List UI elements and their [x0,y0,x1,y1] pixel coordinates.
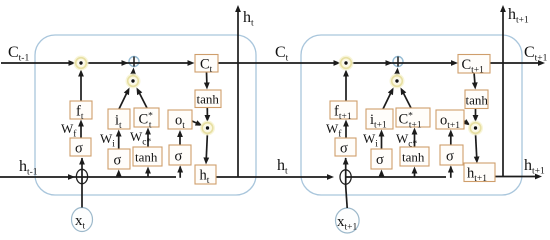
svg-text:σ: σ [446,149,454,165]
svg-text:Wf: Wf [61,121,77,140]
LSTM cell box t+1 [301,35,522,195]
wire h to sigma_i t [118,174,120,177]
plus glyph add t [133,57,135,67]
tanh box output t [195,90,221,108]
svg-text:ht+1: ht+1 [524,157,545,177]
wire C_t to output tanh [206,72,208,85]
svg-text:tanh: tanh [135,150,158,165]
svg-text:σ: σ [376,152,384,168]
multiply circle forget t+1 [339,56,354,71]
wire output multiply to h_t+1 gate [476,134,477,160]
sigma box input t+1 [371,149,392,169]
wire i gate to multiply junction t+1 [383,92,392,110]
output multiply circle t+1 [468,121,483,136]
svg-text:Wf: Wf [326,121,342,140]
wire sigma_f to f gate t [80,124,82,138]
output gate box o_t [168,110,192,129]
multiply junction circle t+1 [390,74,405,89]
cell state box C_t+1 [458,55,490,74]
tanh box candidate t [133,147,162,166]
wire output multiply to h_t gate [206,134,207,161]
wire h_t to cell t+1 [216,176,328,178]
hidden-state output arrow h_t+1 [495,176,538,178]
svg-text:Wi: Wi [363,131,378,150]
multiply circle forget t [74,56,89,71]
wire h to sigma_i t+1 [381,174,383,177]
hidden state box h_t+1 [464,163,495,182]
wire x_t through concat to sigma_f [81,158,83,208]
vertical output h_t [237,10,239,177]
wire f gate to multiply t+1 [345,74,347,101]
hidden-state line inside cell t+1 [346,176,446,178]
wire multiply junction to add t [132,72,134,76]
candidate box C*_t [134,108,159,127]
candidate box C*_t+1 [396,108,430,127]
wire h to tanh_c t [147,171,149,177]
wire candidate to multiply junction t [139,92,147,109]
wire sigma_o to o gate t [179,135,181,146]
svg-text:σ: σ [114,153,122,169]
wire h to tanh_c t+1 [414,171,416,177]
concat circle cell t+1 [340,170,351,184]
wire o gate to output multiply t [192,121,198,124]
svg-text:tanh: tanh [466,92,489,107]
wire x_t+1 to concat [346,186,348,208]
wire output tanh to output multiply t [206,107,208,118]
wire candidate to multiply junction t+1 [403,92,411,109]
multiply junction circle t [126,74,141,89]
cell-state output arrow C_t+1 [490,62,541,64]
LSTM cell box t [35,35,256,195]
svg-text:ht: ht [277,157,288,177]
output multiply circle t [200,121,215,136]
wire multiply junction to add t+1 [396,72,398,76]
output gate box o_t+1 [436,110,464,129]
sigma box forget t+1 [335,138,356,156]
sigma box input t [108,149,130,169]
input ellipse x_t+1 [336,208,360,233]
wire sigma_i to i gate t+1 [381,134,383,149]
wire C_t+1 to output tanh [474,72,475,85]
wire h to output sigma t [179,167,181,178]
cell state box C_t [195,55,218,73]
svg-text:ht: ht [243,9,254,29]
wire i gate to multiply junction t [119,92,128,110]
concat circle cell t [76,169,87,183]
svg-text:C*t: C*t [139,112,154,131]
hidden state box h_t [195,165,216,184]
cell-state line C [1,62,70,64]
sigma box output t [169,145,191,165]
wire tanh_c to candidate t+1 [414,132,416,147]
vertical output h_t+1 [502,10,504,177]
forget gate box f_t [70,101,92,119]
forget gate box f_t+1 [330,101,357,119]
tanh box output t+1 [465,90,488,109]
wire sigma_f to f gate t+1 [345,124,347,138]
wire o gate to output multiply t+1 [464,121,467,123]
svg-text:ht+1: ht+1 [508,6,529,26]
add circle cell t+1 [393,57,403,67]
input gate box i_t+1 [366,109,393,129]
wire sigma_i to i gate t [118,134,120,149]
wire f gate to multiply t [80,74,82,101]
svg-text:Ct+1: Ct+1 [524,44,548,64]
svg-text:σ: σ [340,141,348,157]
svg-text:tanh: tanh [197,92,220,107]
sigma box output t+1 [440,145,463,165]
svg-text:Wi: Wi [100,131,115,150]
wire concat through to sigma_f t+1 [345,158,347,186]
wire output tanh to output multiply t+1 [475,108,477,118]
wire sigma_o to o gate t+1 [450,134,452,145]
svg-text:σ: σ [175,149,183,165]
hidden-state line h [0,176,176,178]
input ellipse x_t [72,208,93,232]
plus glyph add t+1 [397,57,399,67]
wire tanh_c to candidate t [147,132,149,147]
wire h to output sigma t+1 [450,167,452,178]
input gate box i_t [108,109,130,129]
svg-text:tanh: tanh [402,150,425,165]
svg-text:σ: σ [75,141,83,157]
sigma box forget t [70,138,91,156]
add circle cell t [129,57,139,67]
tanh box candidate t+1 [400,147,429,166]
svg-text:Ct: Ct [275,44,289,64]
svg-text:Ct-1: Ct-1 [8,44,29,64]
